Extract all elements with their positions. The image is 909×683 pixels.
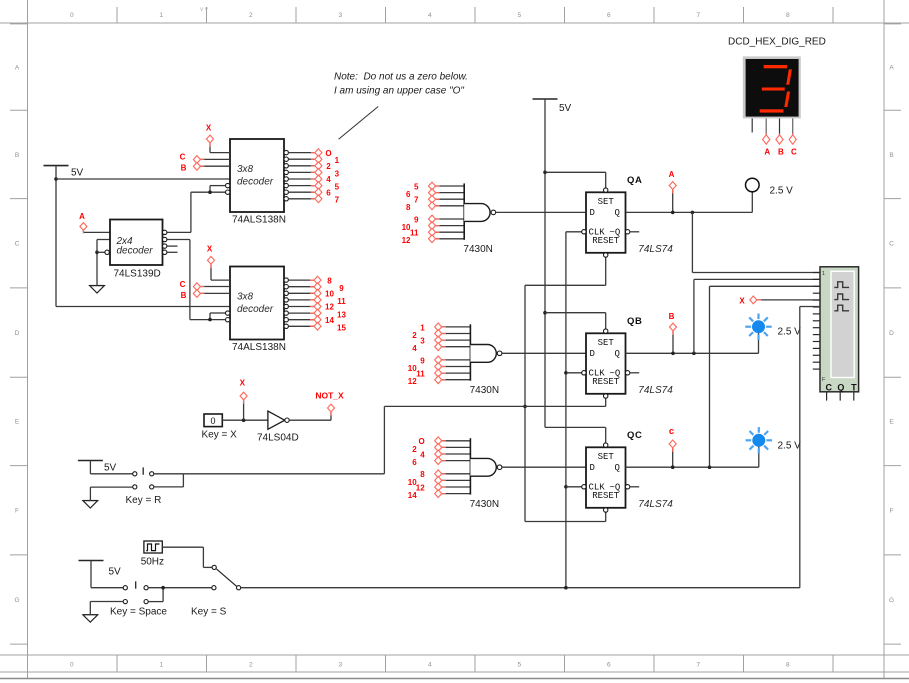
wire A diamond to 74LS139D input A bbox=[82, 231, 84, 233]
svg-text:14: 14 bbox=[325, 316, 334, 325]
wire Key=R pole join bbox=[154, 473, 184, 475]
svg-text:15: 15 bbox=[337, 324, 346, 333]
seven segment display DCD_HEX_DIG_RED bbox=[728, 37, 826, 119]
note pointer line bbox=[339, 107, 379, 140]
svg-text:9: 9 bbox=[339, 284, 344, 293]
svg-text:Note: Do not us a zero below.: Note: Do not us a zero below. bbox=[334, 72, 468, 83]
wire RESET chain vertical bbox=[524, 285, 526, 521]
svg-text:A: A bbox=[764, 148, 770, 157]
wire QB to logic analyzer ch2 bbox=[693, 279, 695, 353]
svg-text:O: O bbox=[325, 149, 331, 158]
nodes gate U7A input labels bbox=[408, 437, 442, 500]
svg-text:c: c bbox=[669, 426, 674, 437]
wire 5V rail to decoder1 pin row5 bbox=[56, 178, 230, 180]
svg-text:74LS74: 74LS74 bbox=[638, 244, 673, 255]
svg-text:Key = Space: Key = Space bbox=[110, 607, 167, 618]
svg-text:NOT_X: NOT_X bbox=[315, 391, 344, 401]
node junction QB to analyzer bbox=[692, 352, 696, 356]
node X (analyzer input) bbox=[739, 296, 756, 305]
node junction decoder1 enable pair bbox=[208, 190, 212, 194]
wire Key=Space lower throw to ground bbox=[90, 601, 123, 603]
svg-text:E: E bbox=[889, 419, 894, 426]
8-input NAND gate U6A 7430N bbox=[470, 324, 502, 396]
svg-text:E: E bbox=[15, 419, 20, 426]
svg-text:10: 10 bbox=[325, 290, 334, 299]
svg-text:4: 4 bbox=[326, 175, 331, 184]
wire CLK to QC bbox=[566, 486, 582, 488]
svg-text:11: 11 bbox=[416, 370, 425, 379]
node junction clock / CLK chain bbox=[564, 586, 568, 590]
inverter U8A 74LS04D bbox=[257, 411, 299, 443]
wire QA RESET down-left bbox=[605, 257, 607, 285]
8-input NAND gate U7A 7430N bbox=[470, 438, 502, 510]
node B (display input) bbox=[776, 135, 784, 157]
node A (QA output) bbox=[669, 170, 677, 189]
clock source 50Hz bbox=[141, 541, 164, 568]
svg-text:6: 6 bbox=[412, 458, 417, 467]
svg-text:F: F bbox=[890, 508, 894, 515]
svg-text:2: 2 bbox=[249, 12, 253, 19]
svg-text:B: B bbox=[15, 152, 19, 159]
wire 5V rail to decoder2 pin row5 bbox=[56, 306, 230, 308]
node junction decoder2 enable pair bbox=[208, 318, 212, 322]
nodes O..7 (decoder1 outputs) bbox=[315, 149, 340, 205]
svg-text:C: C bbox=[889, 241, 894, 248]
wire C to decoder1 row2 bbox=[200, 158, 230, 160]
node junction QA to analyzer bbox=[691, 211, 695, 215]
svg-text:12: 12 bbox=[402, 236, 411, 245]
switch Key=Space (SPDT) bbox=[110, 581, 167, 617]
node X (decoder1 select) bbox=[206, 124, 214, 143]
svg-text:SET: SET bbox=[598, 197, 615, 207]
wire clock to Key=S upper throw bbox=[162, 546, 203, 548]
svg-text:B: B bbox=[669, 312, 675, 321]
wire 74LS139D O0 to 74ALS138N#1 enables bbox=[167, 231, 191, 233]
svg-text:I am using an upper case "O": I am using an upper case "O" bbox=[334, 86, 464, 97]
svg-text:8: 8 bbox=[327, 276, 332, 285]
node A (input) bbox=[79, 212, 87, 230]
svg-text:7: 7 bbox=[696, 662, 700, 669]
svg-text:1: 1 bbox=[159, 12, 163, 19]
svg-text:D: D bbox=[15, 330, 20, 337]
diamond connection stubs (salmon) bbox=[83, 134, 792, 494]
svg-text:D: D bbox=[889, 330, 894, 337]
svg-text:X: X bbox=[739, 296, 745, 305]
wire QA Q output run bbox=[626, 211, 753, 213]
node junction SET QB branch bbox=[543, 311, 547, 315]
svg-text:G: G bbox=[14, 597, 19, 604]
svg-text:13: 13 bbox=[337, 310, 346, 319]
wire X to logic analyzer ch5 bbox=[757, 299, 820, 301]
svg-text:Q: Q bbox=[615, 463, 620, 473]
svg-text:C: C bbox=[15, 241, 20, 248]
svg-text:74LS74: 74LS74 bbox=[638, 499, 673, 510]
svg-text:74LS139D: 74LS139D bbox=[114, 269, 161, 280]
svg-text:3: 3 bbox=[335, 169, 340, 178]
svg-text:decoder: decoder bbox=[237, 177, 274, 188]
wire A diamond stub bbox=[672, 190, 674, 213]
wire SET branch to QC bbox=[545, 426, 606, 428]
probe B 2.5V (lamp on, blue) bbox=[745, 314, 801, 354]
svg-text:9: 9 bbox=[414, 215, 419, 224]
ground (Key=Space) bbox=[83, 615, 98, 622]
wire 5V V1 down rail bbox=[55, 166, 57, 307]
display pin A wire bbox=[765, 119, 767, 135]
node B (decoder2 select) bbox=[181, 290, 201, 300]
3x8 decoder U4 74ALS138N (lower) bbox=[226, 267, 289, 354]
svg-text:A: A bbox=[669, 170, 675, 179]
wire C to decoder2 row2 bbox=[200, 286, 230, 288]
svg-text:3x8: 3x8 bbox=[237, 292, 254, 303]
svg-text:5: 5 bbox=[517, 662, 521, 669]
wire gate U5A output to QA D bbox=[496, 211, 586, 213]
svg-text:C: C bbox=[791, 148, 797, 157]
svg-text:X: X bbox=[206, 124, 212, 133]
svg-text:Key = R: Key = R bbox=[126, 495, 162, 506]
svg-text:QB: QB bbox=[627, 316, 642, 327]
wires gate inputs from diamonds bbox=[442, 326, 471, 328]
display pin C wire bbox=[792, 119, 794, 135]
svg-text:5: 5 bbox=[414, 182, 419, 191]
ground (74LS139D enable) bbox=[90, 286, 105, 293]
node junction QC to analyzer bbox=[708, 465, 712, 469]
node C (decoder2 select) bbox=[180, 280, 201, 291]
node B (QB output) bbox=[669, 312, 677, 331]
wire SET branch to QA bbox=[545, 171, 606, 173]
wire 74LS139D O1 to 74ALS138N#2 enables bbox=[167, 239, 190, 241]
svg-text:Q: Q bbox=[615, 349, 620, 359]
wire C diamond stub bbox=[672, 448, 674, 467]
8-input NAND gate U5A 7430N bbox=[463, 183, 495, 255]
svg-text:SET: SET bbox=[598, 452, 615, 462]
switch Key=S (SPDT) bbox=[191, 565, 241, 617]
svg-text:4: 4 bbox=[412, 344, 417, 353]
wire constant to inverter bbox=[222, 419, 268, 421]
display pin (unconnected) bbox=[751, 119, 753, 133]
svg-text:0: 0 bbox=[70, 662, 74, 669]
svg-text:G: G bbox=[889, 597, 894, 604]
svg-text:B: B bbox=[889, 152, 893, 159]
wire QC Q output run bbox=[626, 466, 759, 468]
svg-text:5V: 5V bbox=[559, 103, 572, 114]
svg-text:0: 0 bbox=[70, 12, 74, 19]
svg-text:2: 2 bbox=[412, 331, 417, 340]
svg-text:3: 3 bbox=[338, 662, 342, 669]
node junction CLK QC branch bbox=[564, 485, 568, 489]
svg-text:7: 7 bbox=[696, 12, 700, 19]
3x8 decoder U2 74ALS138N (upper) bbox=[226, 139, 289, 226]
svg-text:6: 6 bbox=[406, 190, 411, 199]
svg-text:50Hz: 50Hz bbox=[141, 557, 164, 568]
svg-text:RESET: RESET bbox=[592, 377, 620, 387]
svg-text:4: 4 bbox=[428, 662, 432, 669]
svg-text:6: 6 bbox=[607, 662, 611, 669]
ground (Key=R) bbox=[83, 501, 98, 508]
svg-text:8: 8 bbox=[420, 470, 425, 479]
svg-text:X: X bbox=[240, 379, 246, 388]
svg-text:7: 7 bbox=[414, 196, 419, 205]
svg-text:12: 12 bbox=[408, 377, 417, 386]
wire 74LS139D grounded select input bbox=[97, 239, 110, 241]
nodes 8..15 (decoder2 outputs) bbox=[314, 276, 346, 332]
wire B to decoder2 row3 bbox=[200, 292, 230, 294]
svg-text:74LS74: 74LS74 bbox=[638, 385, 673, 396]
svg-text:DCD_HEX_DIG_RED: DCD_HEX_DIG_RED bbox=[728, 37, 826, 48]
svg-text:9: 9 bbox=[420, 356, 425, 365]
svg-text:X: X bbox=[207, 245, 213, 254]
svg-text:1: 1 bbox=[159, 662, 163, 669]
node junction ground / enable bubble bbox=[95, 251, 99, 255]
svg-text:C: C bbox=[180, 153, 186, 162]
node C (display input) bbox=[789, 135, 797, 157]
svg-text:8: 8 bbox=[406, 203, 411, 212]
svg-text:Key = X: Key = X bbox=[202, 430, 238, 441]
svg-text:B: B bbox=[181, 164, 187, 173]
svg-text:7430N: 7430N bbox=[463, 244, 492, 255]
svg-text:RESET: RESET bbox=[592, 491, 620, 501]
display pin B wire bbox=[779, 119, 781, 135]
node C (decoder1 select) bbox=[180, 153, 201, 164]
svg-text:A: A bbox=[79, 212, 85, 221]
power 5V V3 (top middle) bbox=[533, 99, 572, 114]
node A (display input) bbox=[763, 135, 771, 157]
2x4 decoder U3 74LS139D bbox=[105, 220, 167, 280]
wire gate U6A output to QB D bbox=[502, 352, 586, 354]
wire 5V V3 to SET chain vertical bbox=[544, 99, 546, 427]
svg-text:1: 1 bbox=[822, 271, 825, 277]
D flip-flop QB 74LS74 bbox=[582, 329, 674, 398]
node B (decoder1 select) bbox=[181, 163, 201, 173]
wire Key=R to RESET chain bbox=[183, 473, 384, 475]
svg-text:C: C bbox=[825, 382, 832, 392]
node junction RESET / Key=R line bbox=[523, 405, 527, 409]
svg-text:D: D bbox=[590, 463, 595, 473]
svg-text:8: 8 bbox=[786, 12, 790, 19]
svg-text:B: B bbox=[181, 291, 187, 300]
wire 5V V4 to Key=Space bbox=[90, 561, 92, 588]
probe A 2.5V (lamp off) bbox=[746, 178, 794, 212]
svg-text:2.5 V: 2.5 V bbox=[770, 186, 794, 197]
svg-text:B: B bbox=[778, 148, 784, 157]
svg-text:7430N: 7430N bbox=[470, 385, 499, 396]
node X (decoder2 select) bbox=[207, 245, 215, 265]
svg-text:11: 11 bbox=[337, 297, 346, 306]
note annotation text bbox=[334, 72, 468, 97]
wire CLK chain vertical bbox=[565, 232, 567, 588]
svg-text:Q: Q bbox=[615, 208, 620, 218]
D flip-flop QA 74LS74 bbox=[582, 188, 674, 257]
node junction SET QA branch bbox=[543, 171, 547, 175]
svg-text:5V: 5V bbox=[109, 567, 122, 578]
svg-text:3x8: 3x8 bbox=[237, 164, 254, 175]
wire 74LS139D O3 stub bbox=[167, 251, 177, 253]
svg-text:2: 2 bbox=[326, 162, 331, 171]
svg-text:2.5 V: 2.5 V bbox=[778, 327, 802, 338]
svg-text:74ALS138N: 74ALS138N bbox=[232, 342, 286, 353]
power 5V V2 (Key=R branch) bbox=[78, 461, 117, 474]
wire B to decoder1 row3 bbox=[200, 165, 230, 167]
svg-text:O: O bbox=[418, 437, 424, 446]
node NOT_X bbox=[315, 391, 344, 412]
svg-text:74ALS138N: 74ALS138N bbox=[232, 215, 286, 226]
svg-text:6: 6 bbox=[607, 12, 611, 19]
wire QB RESET stub bbox=[605, 398, 607, 406]
power 5V V1 (top left) bbox=[44, 166, 84, 179]
wire Key=S pole to clock distribution bbox=[241, 587, 800, 589]
svg-text:A: A bbox=[15, 64, 20, 71]
svg-text:5V: 5V bbox=[71, 168, 84, 179]
wire 74LS139D enable bubble to ground bbox=[97, 251, 105, 253]
wire 5V V2 to Key=R bbox=[89, 461, 91, 474]
node junction 5V rail / decoder1 feed bbox=[54, 177, 58, 181]
nodes gate U5A input labels bbox=[402, 182, 436, 245]
svg-text:3: 3 bbox=[338, 12, 342, 19]
svg-text:QA: QA bbox=[627, 175, 642, 186]
wire X to decoder2 row1 bbox=[210, 265, 212, 281]
svg-text:decoder: decoder bbox=[117, 246, 154, 257]
wire B diamond stub bbox=[672, 331, 674, 353]
svg-text:C: C bbox=[180, 280, 186, 289]
wire clock line to logic analyzer ch6 bbox=[799, 307, 801, 588]
nodes gate U6A input labels bbox=[408, 323, 442, 386]
svg-text:A: A bbox=[889, 64, 894, 71]
svg-text:4: 4 bbox=[428, 12, 432, 19]
wire Key=R lower throw to ground bbox=[90, 486, 132, 488]
wire SET branch to QB bbox=[545, 312, 606, 314]
node junction Key=Space pole bbox=[161, 586, 165, 590]
svg-text:D: D bbox=[590, 349, 595, 359]
svg-text:RESET: RESET bbox=[592, 236, 620, 246]
svg-text:2: 2 bbox=[412, 445, 417, 454]
digital constant 0 (Key = X) bbox=[202, 414, 238, 441]
wires gate inputs from diamonds bbox=[442, 440, 471, 442]
node junction X tap bbox=[242, 418, 246, 422]
wires gate inputs from diamonds bbox=[435, 185, 464, 187]
svg-text:QC: QC bbox=[627, 430, 642, 441]
svg-text:8: 8 bbox=[786, 662, 790, 669]
svg-text:decoder: decoder bbox=[237, 304, 274, 315]
svg-text:6: 6 bbox=[326, 188, 331, 197]
wire QA to logic analyzer ch1 bbox=[691, 212, 693, 272]
svg-text:3: 3 bbox=[420, 337, 425, 346]
probe C 2.5V (lamp on, blue) bbox=[746, 427, 802, 467]
svg-text:5: 5 bbox=[335, 183, 340, 192]
svg-text:SET: SET bbox=[598, 338, 615, 348]
svg-text:5V: 5V bbox=[104, 462, 117, 473]
svg-text:1: 1 bbox=[335, 156, 340, 165]
svg-text:12: 12 bbox=[416, 483, 425, 492]
svg-text:5: 5 bbox=[517, 12, 521, 19]
svg-text:7: 7 bbox=[335, 196, 340, 205]
wire X to decoder1 row1 bbox=[209, 143, 211, 152]
svg-text:T: T bbox=[851, 382, 857, 392]
svg-text:1: 1 bbox=[420, 323, 425, 332]
svg-text:74LS04D: 74LS04D bbox=[257, 433, 299, 444]
switch Key=R (SPDT) bbox=[126, 467, 162, 506]
wire X diamond stub bbox=[243, 400, 245, 420]
svg-text:Key = S: Key = S bbox=[191, 607, 227, 618]
svg-text:12: 12 bbox=[325, 303, 334, 312]
wire Key=Space pole join bbox=[148, 587, 212, 589]
svg-text:Q: Q bbox=[837, 382, 844, 392]
wire gate U7A output to QC D bbox=[502, 466, 586, 468]
wires decoder1 outputs to diamonds O..7 bbox=[288, 152, 315, 154]
wire QC RESET down-left bbox=[605, 512, 607, 521]
wire CLK to QA bbox=[566, 231, 582, 233]
svg-text:0: 0 bbox=[210, 416, 215, 426]
svg-text:14: 14 bbox=[408, 491, 417, 500]
power 5V V4 (Key=Space branch) bbox=[79, 561, 122, 578]
node X (source) bbox=[240, 379, 247, 400]
wire CLK to QB bbox=[566, 372, 582, 374]
svg-text:2: 2 bbox=[249, 662, 253, 669]
node C (QC output) bbox=[669, 426, 676, 448]
svg-text:D: D bbox=[590, 208, 595, 218]
svg-text:11: 11 bbox=[410, 229, 419, 238]
wire QB Q output run bbox=[626, 352, 759, 354]
svg-text:F: F bbox=[15, 508, 19, 515]
logic analyzer XLA1 bbox=[813, 267, 859, 401]
svg-text:7430N: 7430N bbox=[470, 499, 499, 510]
wires decoder2 outputs to diamonds 8..15 bbox=[288, 279, 314, 281]
svg-text:4: 4 bbox=[420, 450, 425, 459]
node junction CLK QB branch bbox=[564, 371, 568, 375]
wire QC to logic analyzer ch3 bbox=[709, 286, 711, 467]
wire inverter output to NOT_X bbox=[289, 419, 331, 421]
svg-text:2.5 V: 2.5 V bbox=[778, 441, 802, 452]
svg-text:v v: v v bbox=[200, 7, 208, 13]
D flip-flop QC 74LS74 bbox=[582, 443, 674, 512]
wire 74LS139D O2 stub bbox=[167, 245, 177, 247]
